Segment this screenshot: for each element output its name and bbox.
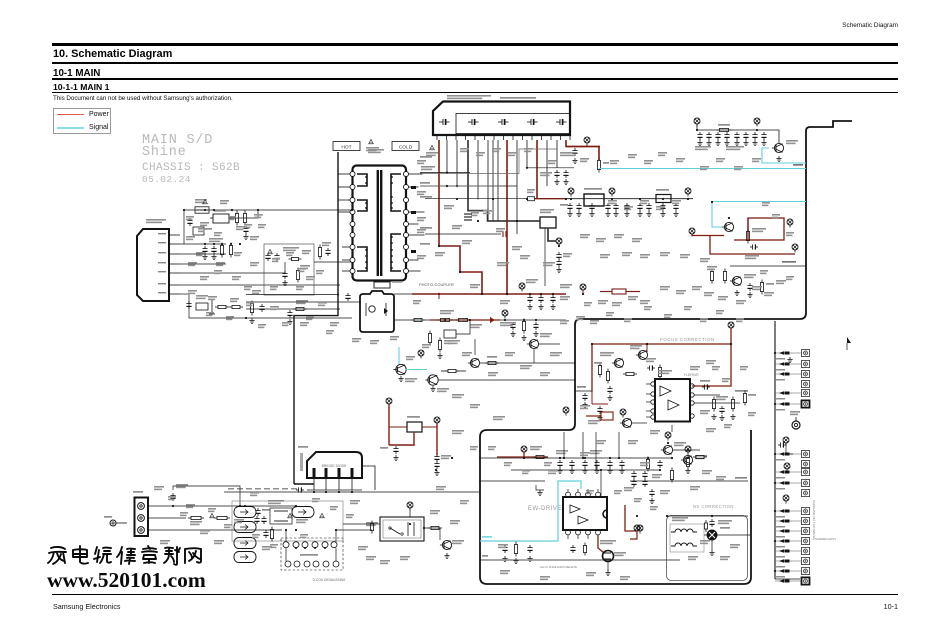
transistor Q402 xyxy=(681,455,693,464)
bridge pin 326 xyxy=(325,468,328,490)
wire rail 167 xyxy=(527,167,574,169)
label value label 91 xyxy=(400,556,410,560)
label value label 25 xyxy=(452,394,464,398)
ground G817 xyxy=(554,179,559,185)
resistor R430 xyxy=(598,363,601,378)
label value label 34 xyxy=(700,258,710,262)
capacitor CNS6 xyxy=(642,479,647,487)
label CN801 label2 xyxy=(500,97,536,99)
label fr01 lbl xyxy=(190,521,202,525)
label sblk xyxy=(793,164,803,166)
resistor R431 xyxy=(606,369,609,384)
watermark char wei xyxy=(94,547,111,563)
label tuner label xyxy=(421,166,435,170)
wire red branch xyxy=(646,344,648,352)
label value label 28 xyxy=(452,430,464,434)
label value label 72 xyxy=(586,572,596,576)
label bd lbl xyxy=(298,446,308,448)
label value label 95 xyxy=(254,214,263,218)
label fv1 lbl xyxy=(790,411,800,415)
resistor R813 xyxy=(229,305,243,308)
junction 39 xyxy=(584,457,586,459)
label value label 76 xyxy=(154,486,164,490)
label pinrow4 xyxy=(264,488,270,490)
label d801 lbl xyxy=(196,295,208,299)
label value label 200 xyxy=(664,314,672,318)
label value label 75 xyxy=(500,570,510,574)
label value label 145 xyxy=(198,228,206,232)
label q802 lbl xyxy=(540,333,552,337)
junction 12 xyxy=(558,245,560,247)
wire T801 right pin y260 xyxy=(409,259,419,261)
wire ew gnd stub xyxy=(536,481,544,490)
wire power red mid xyxy=(430,319,500,321)
footer page number xyxy=(0,602,898,611)
junction a xyxy=(526,167,528,169)
wire focus red loop xyxy=(592,344,731,392)
resistor R425 xyxy=(646,457,649,472)
resistor R831 xyxy=(456,318,471,321)
wire 9V rail xyxy=(566,198,693,200)
ground G837 xyxy=(437,353,442,359)
label value label 69 xyxy=(688,556,698,560)
label crt lbl4 xyxy=(776,409,785,411)
junction 8 xyxy=(611,198,613,200)
snubber box xyxy=(264,244,314,295)
label T801 label xyxy=(368,149,384,153)
label value label 168 xyxy=(180,512,188,516)
warning mark W5 xyxy=(288,513,293,517)
label r816 lbl xyxy=(296,300,308,304)
wire q801 c xyxy=(474,339,476,355)
label focusout lbl xyxy=(735,390,748,392)
capacitor CNS3 xyxy=(631,471,636,479)
junction red3 xyxy=(646,343,648,345)
junction 48 xyxy=(647,457,649,459)
label value label 18 xyxy=(444,340,454,344)
transistor Q408 xyxy=(620,418,632,427)
wire CN801 pin 1 xyxy=(456,140,458,186)
capacitor CB07 xyxy=(263,530,268,538)
ground G808 xyxy=(282,280,287,286)
resistor R836 xyxy=(428,331,431,346)
ground G828 xyxy=(660,211,665,217)
junction 23 xyxy=(529,293,531,295)
junction 28 xyxy=(469,319,471,321)
junction bus244 214 xyxy=(213,243,215,245)
wire red bot xyxy=(592,392,608,404)
label value label 82 xyxy=(262,546,272,550)
label crt lbl8 xyxy=(776,516,785,518)
label value label 195 xyxy=(786,276,794,280)
wire emi2 xyxy=(232,210,258,218)
junction 44 xyxy=(687,457,689,459)
label value label 29 xyxy=(600,254,610,258)
junction 22 xyxy=(481,293,483,295)
svg-text:www.520101.com: www.520101.com xyxy=(47,568,206,592)
svg-text:COLD: COLD xyxy=(399,145,413,151)
ground GP05 xyxy=(243,234,248,240)
watermark char zi xyxy=(142,546,157,563)
label r819 lbl xyxy=(527,189,535,193)
wire cyan link xyxy=(406,369,427,371)
resistor R807 xyxy=(296,268,299,283)
junction 38 xyxy=(559,457,561,459)
wire q804 right xyxy=(438,379,575,381)
label value label 15 xyxy=(435,252,445,256)
wire power red from CN801 pin11 xyxy=(536,140,538,199)
capacitor C817 xyxy=(554,170,559,178)
label value label 111 xyxy=(300,322,309,326)
label value label 101 xyxy=(232,276,241,280)
capacitor C430 xyxy=(607,386,612,394)
capacitor C436 xyxy=(702,384,710,389)
label crt lbl9 xyxy=(776,526,785,528)
label value label 115 xyxy=(370,340,379,344)
label value label 182 xyxy=(586,490,594,494)
capacitor C829 xyxy=(673,203,678,211)
ground G866 xyxy=(734,290,739,296)
capacitor CNS4 xyxy=(631,479,636,487)
label cn01 lbl xyxy=(133,491,143,493)
label value label 149 xyxy=(258,224,266,228)
junction ns xyxy=(711,515,713,517)
wire bridge bottom xyxy=(307,489,362,491)
label pinrow5 xyxy=(273,488,279,490)
ns left caps xyxy=(649,489,654,504)
IC801S switching regulator xyxy=(137,229,169,301)
label value label 20 xyxy=(488,372,498,376)
capacitor C861 xyxy=(750,244,758,249)
label value label 132 xyxy=(644,160,653,164)
transistor Q802 xyxy=(527,339,539,348)
junction 50 xyxy=(563,457,565,459)
label value label 86 xyxy=(430,510,440,514)
page header label xyxy=(0,22,898,29)
junction 62 xyxy=(687,449,689,451)
label value label 170 xyxy=(224,524,232,528)
resistor R442 xyxy=(686,455,689,470)
junction 58 xyxy=(285,529,287,531)
label dg lbl xyxy=(380,447,388,449)
junction 6 xyxy=(565,198,567,200)
capacitor C420 xyxy=(557,460,562,468)
ground G835 xyxy=(533,331,538,337)
label crt lbl3 xyxy=(776,398,785,400)
label crt lbl1 xyxy=(776,369,785,371)
ground GQ401 xyxy=(605,570,610,576)
ground G824 xyxy=(613,211,618,217)
label value label 94 xyxy=(236,226,245,230)
label value label 199 xyxy=(644,306,652,310)
legend power line xyxy=(57,114,84,115)
junction 30 xyxy=(523,319,525,321)
transistor Q852 xyxy=(722,222,734,231)
capacitor CD03 xyxy=(393,446,398,454)
label value label 14 xyxy=(543,262,555,266)
label value label 113 xyxy=(330,322,339,326)
capacitor C433 xyxy=(582,393,587,401)
capacitor C853 xyxy=(724,132,729,140)
label value label 159 xyxy=(244,286,252,290)
ground G803b xyxy=(398,376,403,382)
label value label 131 xyxy=(628,154,637,158)
wire horiz out xyxy=(730,265,806,267)
capacitor C827 xyxy=(646,203,651,211)
wire CN801 pin 3 xyxy=(487,140,489,221)
label q853 lbl xyxy=(744,274,756,278)
wire 9V rail left xyxy=(425,198,526,200)
watermark char xiu xyxy=(117,547,135,564)
ground G803 xyxy=(202,254,207,260)
junction 4 xyxy=(516,220,518,222)
node VCC-D9V top xyxy=(754,118,760,127)
resistor RD06 xyxy=(370,521,373,534)
node VCC-9V xyxy=(568,188,574,197)
wire rail h3 xyxy=(479,480,545,482)
junction 20 xyxy=(459,271,461,273)
wire red ns xyxy=(630,531,637,539)
junction 40 xyxy=(609,457,611,459)
transistor Q850 xyxy=(772,143,784,152)
transformer T801 xyxy=(350,166,409,281)
capacitor CB01 xyxy=(170,493,175,501)
node nvx xyxy=(792,244,798,253)
resistor R804 xyxy=(229,243,232,258)
resistor R864 xyxy=(723,269,726,284)
label value label 139 xyxy=(460,148,469,152)
photo-coupler PC801 xyxy=(360,291,394,332)
wire deg bus1 xyxy=(232,505,296,507)
wire an bus xyxy=(480,559,680,561)
label value label 140 xyxy=(476,152,485,156)
junction 5 xyxy=(526,198,528,200)
junction 11 xyxy=(687,198,689,200)
label value label 161 xyxy=(226,316,234,320)
label lns lbl xyxy=(672,517,688,521)
wire 9V rail red part xyxy=(535,198,567,200)
transistor Q405 xyxy=(612,358,624,367)
resistor R810 xyxy=(597,158,600,173)
label t801 r5 xyxy=(420,243,430,245)
label q803 lbl xyxy=(405,378,417,382)
svg-text:BRIDGE DIODE: BRIDGE DIODE xyxy=(322,464,347,468)
node nEW3 xyxy=(637,525,643,534)
svg-text:H-DRIVE: H-DRIVE xyxy=(684,373,699,377)
label value label 155 xyxy=(316,270,324,274)
arrow D810 xyxy=(411,186,416,189)
COLD label box xyxy=(392,142,419,151)
varistor VA04 xyxy=(234,552,256,563)
label value label 70 xyxy=(720,556,730,560)
warning mark W7 xyxy=(430,145,435,149)
label value label 2 xyxy=(417,217,426,221)
capacitor C405 xyxy=(502,545,507,553)
CRT socket board left edge wire xyxy=(775,321,800,579)
junction 37 xyxy=(523,457,525,459)
junction 7 xyxy=(570,198,572,200)
label pin1 name xyxy=(158,233,166,234)
label mid lbl1 xyxy=(440,310,454,314)
label value label 138 xyxy=(752,158,761,162)
crt vertical text xyxy=(812,500,836,541)
label value label 153 xyxy=(270,286,278,290)
label value label 184 xyxy=(634,498,642,502)
label value label 105 xyxy=(322,242,331,246)
connector CN801 xyxy=(433,102,570,141)
transistor Q406 xyxy=(636,350,648,359)
node n9v xyxy=(568,188,574,197)
junction 26 xyxy=(582,293,584,295)
capacitor CB05 xyxy=(254,516,259,524)
label r807 lbl xyxy=(300,265,310,269)
label value label 64 xyxy=(702,470,712,474)
wire 318 to photo xyxy=(246,317,352,319)
label value label 49 xyxy=(736,300,746,304)
connector CN01 xyxy=(135,498,149,537)
capacitor CNS1 xyxy=(709,519,714,527)
junction red2 xyxy=(506,293,508,295)
resistor R420 xyxy=(533,455,547,458)
label value label 201 xyxy=(684,306,692,310)
label value label 106 xyxy=(188,290,197,294)
capacitor CB06 xyxy=(261,516,266,524)
label value label 19 xyxy=(462,352,472,356)
wire red hs xyxy=(586,415,601,417)
junction 55 xyxy=(172,505,174,507)
wire power red bus xyxy=(412,293,566,295)
wire hb mid xyxy=(560,343,575,345)
label value label 53 xyxy=(690,366,700,370)
resistor R837 xyxy=(438,338,441,353)
ground GEW1 xyxy=(537,490,542,496)
posistor box THP01 xyxy=(407,416,422,432)
resistor R427 xyxy=(670,468,673,483)
capacitor CNS7 xyxy=(649,489,654,497)
label value label 202 xyxy=(700,318,708,322)
wire red dg2 xyxy=(389,432,414,445)
label value label 96 xyxy=(186,236,195,240)
wire pin bus 254 xyxy=(180,253,226,255)
ground G856 xyxy=(752,140,757,146)
ground G825 xyxy=(624,211,629,217)
ground G829 xyxy=(673,211,678,217)
label snb lbl xyxy=(283,247,299,251)
label value label 136 xyxy=(716,158,725,162)
ground G437 xyxy=(711,414,716,420)
capacitor C857 xyxy=(761,132,766,140)
node n33 xyxy=(685,188,691,197)
label value label 52 xyxy=(776,280,786,284)
label value label 33 xyxy=(680,254,690,258)
label r437 lbl xyxy=(716,396,728,400)
label value label 85 xyxy=(366,556,376,560)
watermark char dian xyxy=(73,546,88,564)
label value label 166 xyxy=(326,330,334,334)
capacitor C434 xyxy=(597,406,602,414)
watermark char jia xyxy=(48,547,66,564)
ground G840 xyxy=(527,304,532,310)
authorization note xyxy=(53,95,233,102)
watermark char liao xyxy=(164,547,180,565)
label an lbl xyxy=(482,555,488,557)
node nQ xyxy=(418,350,424,359)
label value label 107 xyxy=(208,296,217,300)
transistor Q853 xyxy=(730,276,742,285)
node nmid xyxy=(502,310,508,319)
transistor Q406 xyxy=(636,350,648,359)
node nHD xyxy=(665,432,671,441)
label thp lbl xyxy=(407,416,420,418)
node nDG xyxy=(386,398,392,407)
capacitor C425 xyxy=(657,460,662,468)
label lblq xyxy=(695,146,711,150)
label va lbl xyxy=(234,519,244,523)
transistor Q408 xyxy=(620,418,632,427)
ground G804 xyxy=(211,254,216,260)
transistor Q803 xyxy=(393,364,406,374)
junction 1 xyxy=(456,198,458,200)
wire bus tuner xyxy=(420,149,557,174)
capacitor CBD xyxy=(296,487,304,492)
label pin2 name xyxy=(158,242,166,243)
crt misc sym2 xyxy=(783,495,789,504)
ground g424 xyxy=(607,468,612,474)
node nEW1 xyxy=(521,446,527,455)
junction 19 xyxy=(438,245,440,247)
junction 47 xyxy=(618,457,620,459)
wire red loop vert amp xyxy=(734,218,784,240)
junction deg 325 xyxy=(324,547,326,549)
wire red ew xyxy=(497,452,548,457)
capacitor CP02 xyxy=(187,218,192,226)
main board outline right (CRT drive area) xyxy=(480,121,852,584)
label r838 lbl xyxy=(487,356,497,358)
sym right arrow xyxy=(847,337,851,350)
ground g422 xyxy=(582,468,587,474)
node n12 xyxy=(556,238,562,247)
label crt lbl10 xyxy=(776,536,785,538)
label ic803 lbl xyxy=(540,209,554,213)
ground G865 xyxy=(747,292,752,298)
junction 60 xyxy=(423,527,425,529)
wire vert x601 xyxy=(600,470,602,497)
label value label 47 xyxy=(704,292,714,296)
IC803 box xyxy=(540,209,556,228)
label ic801s label xyxy=(146,219,166,223)
label value label 78 xyxy=(186,504,195,508)
label value label 10 xyxy=(496,228,505,232)
junction 56 xyxy=(239,505,241,507)
red cluster R820 xyxy=(600,289,640,294)
wire power red from CN801 pin14 xyxy=(566,140,599,160)
label value label 38 xyxy=(632,238,642,242)
transistor Q804 xyxy=(425,375,438,385)
label cb02 lbl xyxy=(262,509,270,511)
label value label 17 xyxy=(500,300,510,304)
rule under 10-1 xyxy=(52,78,898,80)
label value label 144 xyxy=(186,216,194,220)
subsection 10-1 xyxy=(53,68,100,79)
label value label 114 xyxy=(352,338,361,342)
capacitor C813 xyxy=(287,310,292,318)
node nDG xyxy=(386,398,392,407)
wire mid photo xyxy=(246,308,340,310)
label ew in lbl xyxy=(482,536,492,538)
resistor R806 xyxy=(289,257,302,260)
ground G853 xyxy=(724,140,729,146)
label horizout xyxy=(782,261,796,263)
